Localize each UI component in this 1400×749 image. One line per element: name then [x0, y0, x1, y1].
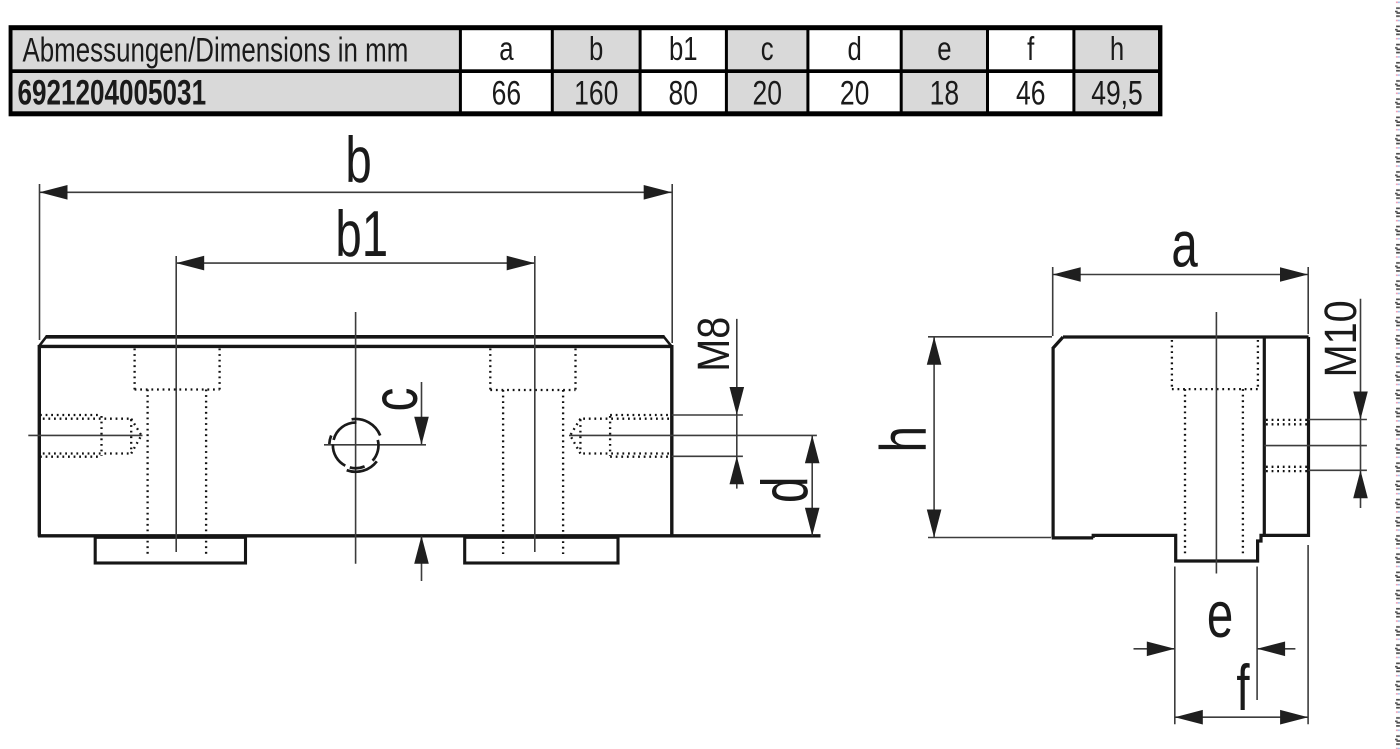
body right edge left view — [670, 345, 673, 537]
body bottom edge left view extended right for dimension d — [38, 534, 821, 537]
hidden line left side hole drill end — [130, 420, 132, 454]
table cell b value — [554, 73, 639, 111]
svg-text:66: 66 — [492, 74, 522, 112]
dimension line a — [1053, 274, 1308, 276]
svg-text:80: 80 — [669, 74, 699, 112]
table cell b header — [554, 30, 639, 69]
M8 hole top line — [672, 414, 743, 416]
arrowhead d up — [805, 435, 820, 463]
dimension line e left tail — [1134, 648, 1175, 650]
hidden line right side hole drill end — [579, 420, 581, 454]
arrowhead h up — [927, 337, 942, 365]
svg-text:d: d — [847, 31, 861, 68]
hidden line right side hole drill top — [580, 418, 671, 420]
center line right side hole extended to dimension d — [569, 434, 817, 436]
dimension line c lower — [421, 536, 423, 581]
right edge right view — [1307, 337, 1310, 537]
center line right T-slot / b1 extension right — [534, 256, 536, 552]
extension line f right — [1307, 545, 1309, 724]
hidden line right side hole thread top — [610, 414, 672, 416]
hidden line plate hole top pair — [1266, 420, 1308, 424]
center line part vertical left view — [355, 312, 357, 564]
dimension line b1 — [176, 262, 535, 264]
right key block — [465, 537, 618, 563]
plate divider line right view — [1263, 337, 1266, 537]
hidden line right T-slot narrow left — [502, 390, 504, 554]
svg-text:c: c — [359, 388, 432, 412]
M10 center line — [1264, 445, 1367, 447]
svg-text:b1: b1 — [669, 31, 698, 68]
table cell a value — [462, 73, 551, 111]
svg-text:M8: M8 — [689, 317, 739, 372]
hidden line right view T-slot narrow left — [1184, 389, 1186, 555]
svg-text:18: 18 — [930, 74, 960, 112]
table cell d value — [809, 73, 899, 111]
extension line e right — [1256, 567, 1258, 701]
svg-text:20: 20 — [840, 74, 870, 112]
left key block — [95, 537, 245, 563]
hidden line right T-slot shoulder — [490, 389, 575, 391]
svg-text:c: c — [761, 31, 774, 68]
arrowhead M8 down — [730, 387, 745, 415]
dimension line d — [811, 435, 813, 536]
table cell f header — [989, 30, 1072, 69]
hidden line right side hole thread end — [609, 416, 611, 456]
table cell f value — [989, 73, 1072, 111]
dimension line c upper — [421, 382, 423, 445]
arrowhead M10 down — [1353, 392, 1368, 420]
hidden line right side hole drill bottom — [580, 452, 671, 454]
arrowhead a right — [1280, 267, 1308, 282]
svg-text:f: f — [1236, 652, 1249, 725]
hidden line right T-slot wide left — [489, 349, 491, 391]
hidden line left side hole drill bottom — [40, 452, 131, 454]
table cell c header — [728, 30, 807, 69]
svg-text:b: b — [589, 31, 603, 68]
hidden line left T-slot wide right — [218, 349, 220, 390]
arrowhead M8 up — [730, 456, 745, 484]
table cell b1 header — [642, 30, 725, 69]
hidden line right side hole drill cone — [570, 419, 580, 454]
arrowhead b1 right — [507, 256, 535, 271]
body top chamfer left — [39, 337, 47, 347]
arrowhead e left pointing right — [1147, 642, 1175, 657]
svg-text:b1: b1 — [335, 198, 388, 271]
hidden line right view T-slot wide left — [1171, 340, 1173, 389]
hidden line right T-slot wide right — [574, 349, 576, 391]
table frame — [9, 25, 1163, 116]
hidden line left T-slot narrow left — [146, 390, 148, 555]
thread circle central hole — [329, 419, 380, 472]
hidden line right view T-slot shoulder — [1172, 388, 1258, 390]
hidden line left side hole thread end — [100, 416, 102, 456]
hidden line left T-slot shoulder — [135, 388, 220, 390]
hidden line left side hole drill cone — [131, 419, 141, 454]
table cell d header — [809, 30, 899, 69]
hidden line plate hole bottom pair — [1266, 467, 1308, 471]
dimension line f — [1175, 716, 1308, 718]
center line left side hole — [28, 434, 142, 436]
arrowhead c up — [414, 536, 429, 564]
arrowhead a left — [1053, 267, 1081, 282]
svg-text:h: h — [1110, 31, 1124, 68]
arrowhead b1 left — [176, 256, 204, 271]
svg-text:d: d — [749, 477, 822, 503]
svg-text:46: 46 — [1016, 74, 1046, 112]
center line part vertical right view — [1215, 312, 1217, 574]
M8 leader line — [736, 319, 738, 489]
table cell h header — [1075, 30, 1158, 69]
body left edge left view — [38, 345, 41, 537]
svg-text:a: a — [1171, 208, 1198, 281]
center line central hole horizontal — [324, 444, 426, 446]
hidden line right view T-slot narrow right — [1242, 389, 1244, 555]
extension line h bottom — [928, 537, 1051, 539]
body top edge lower line left view — [39, 345, 672, 348]
M10 top line — [1309, 419, 1367, 421]
hidden line left T-slot wide left — [133, 349, 135, 390]
svg-text:a: a — [499, 31, 514, 68]
arrowhead e right pointing left — [1257, 642, 1285, 657]
extension line b right — [671, 184, 673, 343]
extension line b left — [39, 184, 41, 340]
hidden line left T-slot narrow right — [205, 390, 207, 555]
svg-text:Abmessungen/Dimensions in mm: Abmessungen/Dimensions in mm — [23, 32, 409, 69]
arrowhead M10 up — [1353, 470, 1368, 498]
table cell b1 value — [642, 73, 725, 111]
svg-text:20: 20 — [752, 74, 782, 112]
svg-text:h: h — [867, 426, 940, 452]
M10 leader line — [1360, 299, 1362, 508]
svg-text:49,5: 49,5 — [1091, 74, 1143, 112]
extension line a right — [1307, 267, 1309, 334]
svg-text:M10: M10 — [1316, 300, 1366, 377]
table cell e value — [903, 73, 986, 111]
table cell c value — [728, 73, 807, 111]
hidden line left side hole thread bottom — [40, 456, 102, 458]
table cell label header — [13, 30, 459, 69]
table cell h value — [1075, 73, 1158, 111]
arrowhead f right — [1280, 710, 1308, 725]
hidden line left side hole thread top — [40, 414, 102, 416]
dimension line e right tail — [1257, 648, 1295, 650]
arrowhead d down — [805, 508, 820, 536]
table cell label row2 — [13, 73, 459, 111]
arrowhead h down — [927, 510, 942, 538]
table cell a header — [462, 30, 551, 69]
arrowhead f left — [1175, 710, 1203, 725]
arrowhead b left — [40, 185, 68, 200]
center line left T-slot / b1 extension left — [175, 256, 177, 552]
extension line a left — [1052, 267, 1054, 336]
svg-text:e: e — [1207, 579, 1233, 652]
table cell e header — [903, 30, 986, 69]
hidden line left side hole drill top — [40, 418, 131, 420]
dimension line b — [40, 191, 672, 193]
M10 bottom line — [1309, 469, 1367, 471]
extension line e and f left — [1174, 567, 1176, 725]
body top chamfer right — [664, 337, 672, 347]
M8 hole bottom line — [672, 455, 743, 457]
hidden line right T-slot narrow right — [562, 390, 564, 554]
svg-text:6921204005031: 6921204005031 — [18, 73, 207, 113]
hidden line right side hole thread bottom — [610, 456, 672, 458]
body outline right view — [1052, 337, 1309, 561]
svg-text:f: f — [1027, 31, 1035, 68]
extension line h top — [928, 336, 1052, 338]
svg-text:160: 160 — [574, 74, 618, 112]
svg-text:e: e — [937, 31, 951, 68]
arrowhead c down — [414, 417, 429, 445]
svg-text:b: b — [345, 124, 371, 197]
body top edge upper line left view — [46, 335, 665, 339]
hidden line right view T-slot wide right — [1257, 340, 1259, 389]
dimension line h — [933, 337, 935, 538]
arrowhead b right — [644, 185, 672, 200]
